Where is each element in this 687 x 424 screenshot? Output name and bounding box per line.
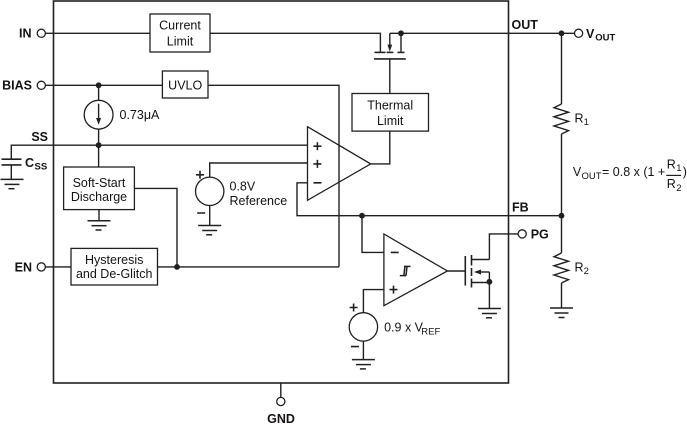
- block Current Limit: [150, 14, 210, 52]
- IC boundary box: [54, 1, 509, 383]
- junction Q2 source-bulk node: [487, 279, 493, 285]
- junction SS node: [96, 142, 102, 148]
- svg-text:V: V: [586, 27, 595, 41]
- comparator U2: [384, 234, 448, 306]
- svg-text:OUT: OUT: [512, 18, 539, 32]
- wire Soft-Start Discharge output to EN net: [134, 188, 177, 267]
- junction EN net node: [174, 264, 180, 270]
- FB node junction: [559, 213, 565, 219]
- ground below Q2: [478, 309, 501, 318]
- pass transistor Q1 (PMOS): [374, 33, 406, 93]
- wire Q2 drain to PG terminal: [489, 234, 518, 260]
- wire IN to Current Limit: [45, 32, 150, 34]
- svg-text:OUT: OUT: [582, 171, 602, 182]
- svg-text:Limit: Limit: [377, 114, 404, 128]
- wire R1 to FB node: [561, 134, 563, 216]
- svg-text:): ): [683, 165, 687, 179]
- svg-text:FB: FB: [512, 201, 529, 215]
- svg-text:Limit: Limit: [167, 35, 194, 49]
- wire EN to Hysteresis block: [45, 266, 71, 268]
- svg-text:2: 2: [584, 266, 589, 277]
- ground below reference: [198, 226, 221, 235]
- op-amp U1 error amplifier: [308, 127, 371, 201]
- svg-text:EN: EN: [15, 260, 32, 274]
- wire V2 to ground: [362, 341, 364, 360]
- wire Current Limit to pass FET source: [210, 33, 380, 51]
- wire SS rail to error amp: [11, 145, 307, 159]
- wire Hysteresis output to UVLO net: [158, 266, 340, 268]
- svg-text:REF: REF: [421, 326, 440, 337]
- svg-text:SS: SS: [31, 130, 48, 144]
- current source I1 0.73uA: [84, 100, 160, 129]
- svg-text:Current: Current: [159, 19, 201, 33]
- wire BIAS node to current source: [98, 85, 100, 100]
- svg-text:IN: IN: [19, 27, 32, 41]
- svg-text:PG: PG: [531, 227, 549, 241]
- hysteresis symbol inside comparator: [400, 266, 411, 275]
- svg-text:1: 1: [676, 163, 681, 174]
- pin BIAS: [2, 79, 45, 93]
- ground below Soft-Start Discharge: [88, 221, 111, 230]
- resistor R2: [554, 216, 589, 308]
- wire comparator output to Q2 gate: [447, 270, 465, 272]
- junction OUT node: [559, 30, 565, 36]
- svg-text:R: R: [667, 177, 676, 191]
- terminal PG: [518, 227, 549, 241]
- transistor Q2 PG open-drain: [465, 255, 489, 309]
- voltage reference V1 0.8V: [196, 171, 288, 213]
- ground below V2: [352, 360, 375, 369]
- svg-text:BIAS: BIAS: [2, 79, 32, 93]
- equation VOUT formula: [573, 157, 687, 194]
- svg-text:UVLO: UVLO: [168, 79, 202, 93]
- junction BIAS node: [96, 82, 102, 88]
- wire BIAS to UVLO: [45, 84, 162, 86]
- svg-text:0.9 x V: 0.9 x V: [384, 320, 424, 334]
- wire error amp output to Thermal Limit: [371, 131, 390, 164]
- block Hysteresis and De-Glitch: [71, 248, 158, 285]
- svg-text:R: R: [575, 260, 584, 274]
- svg-text:0.73μA: 0.73μA: [120, 108, 161, 122]
- svg-text:Hysteresis: Hysteresis: [85, 253, 143, 267]
- junction FB to comparator node: [359, 213, 365, 219]
- block Thermal Limit: [352, 94, 429, 132]
- svg-text:0.8V: 0.8V: [230, 179, 256, 193]
- svg-text:1: 1: [584, 117, 589, 128]
- svg-text:Thermal: Thermal: [367, 99, 413, 113]
- wire Soft-Start Discharge to ground: [98, 210, 100, 221]
- svg-text:SS: SS: [35, 162, 48, 173]
- junction drain node: [398, 30, 404, 36]
- wire error amp minus input from FB: [297, 183, 562, 216]
- wire SS node to Soft-Start Discharge: [98, 145, 100, 167]
- voltage source V2 0.9xVREF: [349, 304, 440, 347]
- block Soft-Start Discharge: [64, 167, 135, 210]
- capacitor CSS: [2, 156, 48, 180]
- resistor R1: [554, 104, 589, 134]
- svg-text:Reference: Reference: [230, 194, 288, 208]
- wire FET drain to OUT: [390, 32, 575, 34]
- block UVLO: [162, 71, 208, 98]
- ground below R2: [550, 308, 573, 318]
- pin EN: [15, 260, 46, 274]
- wire OUT node to R1: [561, 33, 563, 104]
- svg-text:Soft-Start: Soft-Start: [73, 176, 126, 190]
- svg-text:OUT: OUT: [595, 33, 615, 44]
- svg-text:Discharge: Discharge: [71, 190, 127, 204]
- svg-text:R: R: [667, 157, 676, 171]
- wire reference to ground: [209, 206, 211, 226]
- svg-text:2: 2: [676, 183, 681, 194]
- svg-text:= 0.8 x (1 +: = 0.8 x (1 +: [602, 165, 665, 179]
- fraction bar R1/R2: [666, 174, 681, 176]
- wire FB node to comparator minus input: [362, 216, 384, 253]
- pin GND: [267, 383, 295, 424]
- svg-text:GND: GND: [267, 412, 295, 424]
- ground below CSS: [1, 179, 24, 188]
- wire V2 to comparator plus input: [363, 290, 384, 313]
- pin IN: [19, 27, 45, 41]
- svg-text:R: R: [575, 111, 584, 125]
- svg-text:C: C: [25, 156, 34, 170]
- wire current source to SS node: [98, 129, 100, 145]
- terminal VOUT: [575, 27, 616, 44]
- svg-text:and De-Glitch: and De-Glitch: [76, 267, 152, 281]
- wire UVLO output down to EN net: [208, 85, 339, 267]
- wire reference to error amp + input: [210, 163, 308, 177]
